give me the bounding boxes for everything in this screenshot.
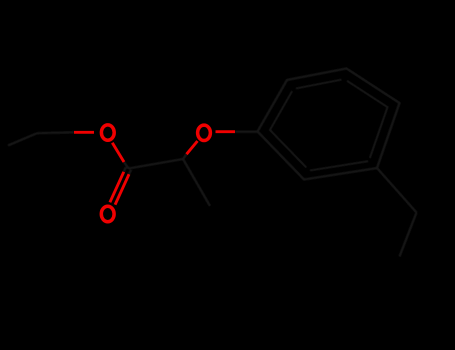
benzene ring outer hexagon C1-C2-C3-C4-C5-C6	[258, 69, 400, 180]
ring inner line C6-C1	[270, 130, 307, 168]
bond C(alpha)-O3 dark half	[183, 154, 187, 159]
double bond C=O2 line 1 red part	[110, 172, 124, 203]
bond CH2-O1 dark half	[37, 131, 74, 134]
bond CH2-CH3 substituent tail	[400, 213, 417, 257]
bond O1-C(carbonyl) dark tip	[124, 162, 129, 169]
double bond C=O2 line 1 dark tip	[124, 167, 126, 172]
bond C5-CH2 ring substituent	[377, 168, 417, 213]
bond C(alpha)-O3 red half	[187, 141, 198, 154]
ring inner line C5-C6	[310, 161, 368, 170]
ring inner line C2-C3	[296, 80, 342, 89]
ring inner line C4-C5	[370, 106, 388, 158]
ring inner line C1-C2	[270, 91, 293, 130]
bond O3-C1 dark half	[235, 130, 258, 132]
bond C(carbonyl)-C(alpha)	[129, 159, 184, 169]
bond CH3-CH2 (ethyl tail)	[8, 133, 37, 145]
bond O3-C1 red half	[216, 130, 236, 133]
bond C(alpha)-CH3 methyl stub	[183, 159, 210, 206]
double bond C=O2 line 2 dark tip	[129, 170, 131, 175]
atom O1 ester oxygen	[101, 125, 114, 140]
double bond C=O2 line 2 red part	[115, 174, 129, 205]
bond O1-C(carbonyl) red part	[112, 143, 124, 162]
bond CH2-O1 red half	[74, 131, 94, 134]
atom O2 carbonyl oxygen	[101, 206, 114, 221]
ring inner line C3-C4	[347, 81, 388, 108]
atom O3 ether oxygen	[198, 125, 211, 140]
